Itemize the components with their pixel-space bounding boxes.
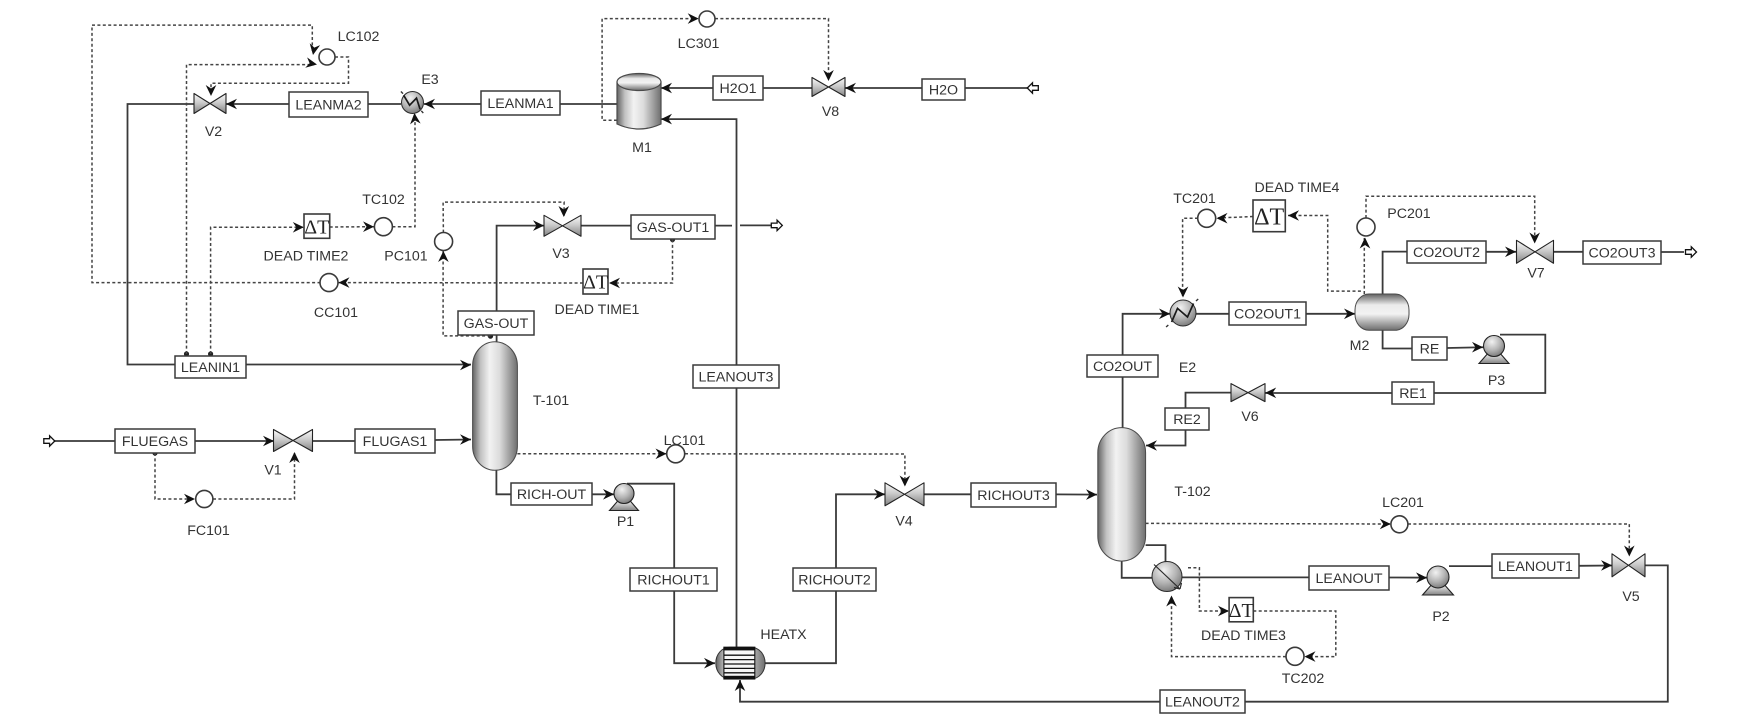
wire V3 to GAS-OUT1 [581, 225, 631, 227]
wire E3 to LEANMA2 [368, 103, 401, 105]
stream label LEANMA1 [481, 91, 560, 115]
svg-text:V8: V8 [822, 104, 839, 120]
wire RICHOUT3 to T-102 [1056, 493, 1097, 495]
wire CO2OUT3 out [1661, 251, 1684, 253]
svg-text:LC101: LC101 [664, 433, 706, 449]
product terminator CO2OUT3 [1686, 247, 1697, 257]
signal M1 level to LC301 [602, 19, 697, 121]
dead-time block DEAD TIME1 [583, 269, 608, 294]
arrow into V4 [874, 489, 885, 500]
wire H2O feed [965, 87, 1028, 89]
svg-text:P1: P1 [617, 514, 634, 530]
controller TC202 [1286, 647, 1304, 665]
arrow into V8 (signal) [823, 70, 834, 81]
svg-text:FLUGAS1: FLUGAS1 [363, 434, 428, 450]
svg-text:RICHOUT2: RICHOUT2 [798, 573, 871, 589]
arrow into M1 (H2O1) [661, 83, 672, 94]
svg-text:V1: V1 [264, 463, 281, 479]
stream label LEANOUT [1309, 566, 1389, 590]
signal CC101 to LC102 [92, 25, 321, 283]
svg-text:LC201: LC201 [1382, 495, 1424, 511]
heat exchanger E2 [1170, 300, 1196, 326]
controller PC201 [1357, 218, 1375, 236]
svg-text:TC202: TC202 [1282, 671, 1325, 687]
arrow into TC201 [1217, 213, 1228, 224]
mixer tank M1 [617, 74, 661, 130]
svg-text:RICHOUT3: RICHOUT3 [977, 488, 1050, 504]
arrow into TC202 [1305, 651, 1316, 662]
stream label H2O [922, 79, 965, 100]
arrow into V8 [845, 83, 856, 94]
stream label RE2 [1165, 408, 1209, 430]
signal PC101 to V3 [443, 202, 564, 233]
arrow into T-102 (RE2) [1146, 440, 1157, 451]
arrow into PC101 [438, 251, 449, 262]
svg-text:RICHOUT1: RICHOUT1 [637, 573, 710, 589]
signal LC101 to V4 [685, 454, 905, 485]
svg-text:H2O: H2O [929, 83, 958, 99]
junction tap on LEANIN1 (to LC102) [184, 351, 189, 356]
svg-text:V4: V4 [895, 514, 912, 530]
signal M2 temp to DEAD TIME4 [1288, 216, 1361, 292]
valve V1 [274, 430, 313, 452]
controller LC301 [699, 11, 715, 27]
wire T-102 vapor return to reboiler [1146, 545, 1166, 562]
arrow into V7 [1505, 247, 1516, 258]
signal M2 pressure to PC201 [1363, 238, 1365, 294]
arrow into reboiler (duty) [1166, 596, 1177, 607]
svg-text:DEAD TIME4: DEAD TIME4 [1255, 180, 1340, 196]
arrow into E2 [1159, 309, 1170, 320]
valve V7 [1517, 240, 1554, 263]
stream label CO2OUT2 [1407, 241, 1486, 263]
svg-text:DEAD TIME3: DEAD TIME3 [1201, 628, 1286, 644]
wire FLUEGAS feed [54, 440, 115, 442]
stream label RICHOUT3 [971, 483, 1056, 507]
arrow into V3 [533, 220, 544, 231]
stream label LEANOUT1 [1492, 554, 1579, 578]
svg-text:E2: E2 [1179, 360, 1196, 376]
svg-text:CO2OUT2: CO2OUT2 [1413, 245, 1480, 261]
arrow into E3 (duty) [409, 113, 421, 125]
svg-text:TC201: TC201 [1173, 191, 1216, 207]
arrow into V1 [263, 436, 274, 447]
wire HEATX to V4 via RICHOUT2 [765, 494, 885, 663]
signal LEANIN1 to LC102 [187, 65, 315, 354]
stream label FLUGAS1 [355, 429, 435, 453]
arrow into HEATX cold side [704, 658, 715, 669]
wire GAS-OUT1 out (left of crossing) [715, 225, 732, 227]
dead-time block DEAD TIME2 [304, 214, 330, 238]
valve V8 [812, 78, 845, 97]
signal GAS-OUT1 to DEAD TIME1 [609, 240, 673, 284]
signal T-102 level to LC201 [1146, 522, 1390, 525]
controller TC201 [1198, 209, 1216, 227]
arrow into V4 (signal) [900, 476, 911, 487]
svg-text:FLUEGAS: FLUEGAS [122, 434, 188, 450]
wire CO2OUT2 to V7 [1486, 251, 1516, 253]
svg-text:TC102: TC102 [362, 192, 405, 208]
wire RE to P3 [1447, 347, 1494, 348]
stream label GAS-OUT1 [631, 215, 715, 239]
controller FC101 [196, 490, 213, 507]
controller LC102 [319, 49, 335, 65]
stripper column T-102 [1098, 428, 1146, 561]
pump P3 [1479, 352, 1509, 364]
wire V4 to RICHOUT3 [924, 493, 971, 495]
arrow into LC102 (from CC101) [308, 43, 320, 56]
wire P1 to HEATX via RICHOUT1 [627, 484, 715, 664]
stream label CO2OUT3 [1583, 241, 1661, 264]
junction tap on FLUEGAS [152, 450, 157, 455]
heat exchanger HEATX [716, 647, 765, 679]
stream label CO2OUT [1087, 355, 1158, 377]
wire CO2OUT1 to M2 [1306, 313, 1355, 315]
svg-text:RE1: RE1 [1399, 386, 1427, 402]
svg-text:CO2OUT: CO2OUT [1093, 359, 1152, 375]
valve V2 [194, 94, 226, 114]
arrow into DEAD TIME4 [1288, 210, 1299, 221]
wire V7 to CO2OUT3 [1554, 251, 1583, 253]
junction tap on GAS-OUT1 [670, 237, 675, 242]
signal DEAD TIME1 to CC101 [339, 282, 584, 284]
svg-text:LEANMA2: LEANMA2 [295, 98, 361, 114]
svg-text:ΔT: ΔT [304, 216, 329, 238]
svg-text:ΔT: ΔT [1254, 204, 1284, 230]
pump P2 [1423, 583, 1454, 595]
wire T-101 bottom to RICH-OUT [496, 469, 511, 494]
arrow into P3 [1472, 342, 1483, 353]
arrow into LC102 (measurement) [305, 57, 318, 69]
stream label RICHOUT1 [630, 568, 717, 591]
wire LEANMA2 to V2 [226, 103, 289, 105]
svg-text:PC101: PC101 [384, 249, 427, 265]
stream label CO2OUT1 [1229, 302, 1306, 325]
wire T-102 bottom to reboiler [1122, 560, 1153, 578]
svg-text:V5: V5 [1622, 589, 1639, 605]
product terminator GAS-OUT1 [771, 220, 782, 230]
wire V5 to HEATX hot side via LEANOUT2 [740, 565, 1668, 701]
arrow into TC102 [363, 221, 374, 232]
arrow into V5 [1601, 560, 1612, 571]
svg-text:LEANMA1: LEANMA1 [487, 96, 553, 112]
heat exchanger E3 [402, 92, 424, 114]
arrow into DEAD TIME3 [1218, 606, 1229, 617]
junction tap on GAS-OUT [488, 334, 493, 339]
arrow into DEAD TIME1 [609, 278, 620, 289]
stream label RE1 [1392, 382, 1434, 404]
svg-text:GAS-OUT: GAS-OUT [464, 316, 529, 332]
stream label RICH-OUT [511, 483, 592, 505]
feed terminator H2O [1027, 83, 1038, 93]
wire LEANIN1 to T-101 [246, 364, 471, 366]
wire FLUEGAS to V1 [195, 440, 274, 442]
wire LEANOUT1 to V5 [1579, 565, 1612, 567]
wire V1 to FLUGAS1 [312, 440, 355, 442]
svg-text:DEAD TIME2: DEAD TIME2 [264, 249, 349, 265]
controller TC102 [374, 218, 392, 236]
svg-text:V2: V2 [205, 124, 222, 140]
svg-text:GAS-OUT1: GAS-OUT1 [637, 220, 710, 236]
arrow into LC201 [1380, 519, 1391, 530]
valve V5 [1612, 554, 1645, 577]
arrow into P2 [1416, 572, 1427, 583]
svg-text:M2: M2 [1350, 338, 1370, 354]
svg-text:LC301: LC301 [678, 36, 720, 52]
signal FLUEGAS to FC101 [155, 453, 195, 499]
svg-text:V3: V3 [552, 246, 569, 262]
junction tap on LEANIN1 (to DEAD TIME2) [208, 351, 213, 356]
wire M1 to LEANMA1 [560, 103, 617, 105]
feed terminator FLUEGAS [44, 436, 55, 446]
svg-text:T-101: T-101 [533, 393, 569, 409]
svg-text:V7: V7 [1527, 266, 1544, 282]
arrow into LC101 [656, 449, 667, 460]
signal TC202 to reboiler duty [1172, 597, 1287, 657]
arrow into M2 [1344, 309, 1355, 320]
svg-text:RE2: RE2 [1173, 412, 1201, 428]
signal GAS-OUT to PC101 [443, 251, 490, 336]
signal FC101 to V1 [213, 452, 295, 499]
svg-text:HEATX: HEATX [760, 627, 807, 643]
arrow into M1 (LEANOUT3) [661, 114, 672, 125]
arrow into T-102 (RICHOUT3) [1086, 489, 1097, 500]
wire FLUGAS1 to T-101 [435, 439, 471, 442]
svg-text:H2O1: H2O1 [719, 81, 756, 97]
arrow into PC201 [1360, 238, 1371, 249]
svg-text:PC201: PC201 [1387, 206, 1430, 222]
reboiler exchanger of T-102 [1152, 562, 1182, 592]
svg-text:LEANOUT: LEANOUT [1315, 571, 1382, 587]
svg-text:LC102: LC102 [338, 29, 380, 45]
stream label FLUEGAS [115, 429, 195, 453]
arrow into E2 (duty) [1178, 287, 1189, 298]
arrow into FC101 [184, 494, 195, 505]
absorber column T-101 [473, 342, 518, 471]
svg-text:FC101: FC101 [187, 523, 230, 539]
dead-time block DEAD TIME4 [1253, 200, 1285, 232]
signal DEAD TIME4 to TC201 [1218, 217, 1253, 219]
valve V4 [885, 483, 924, 506]
arrow into V2 [226, 99, 237, 110]
arrow into V3 (signal) [559, 206, 570, 217]
arrow into P1 [603, 489, 614, 500]
signal LC301 to V8 [715, 19, 829, 79]
arrow into DEAD TIME2 [293, 222, 304, 233]
arrow into V2 (signal) [206, 85, 217, 96]
stream label H2O1 [713, 76, 763, 100]
signal reboiler temp to DEAD TIME3 [1188, 568, 1228, 611]
stream label LEANOUT3 [693, 365, 779, 388]
stream label LEANIN1 [175, 356, 246, 378]
svg-text:P2: P2 [1432, 609, 1449, 625]
svg-text:M1: M1 [632, 140, 652, 156]
svg-text:RICH-OUT: RICH-OUT [517, 487, 587, 503]
svg-text:E3: E3 [421, 72, 438, 88]
arrow into V7 (signal) [1529, 233, 1540, 244]
signal LC102 to V2 [211, 57, 349, 92]
controller LC101 [667, 445, 685, 463]
svg-text:ΔT: ΔT [583, 272, 608, 294]
wire V6 to T-102 via RE2 [1146, 393, 1231, 446]
wire V8 to H2O1 [763, 87, 812, 89]
controller CC101 [320, 274, 338, 292]
arrow into V1 (signal) [289, 452, 300, 463]
wire V2 to LEANIN1 [128, 104, 195, 365]
wire LEANMA1 to E3 [424, 103, 481, 105]
valve V6 [1231, 384, 1265, 402]
wire H2O to V8 [845, 87, 922, 89]
wire LEANOUT to P2 [1389, 577, 1438, 579]
wire M2 bottom to RE [1383, 329, 1412, 349]
svg-text:ΔT: ΔT [1229, 600, 1254, 622]
wire T-102 top CO2OUT to E2 [1123, 314, 1170, 428]
signal PC201 to V7 [1366, 196, 1535, 242]
signal DEAD TIME2 to TC102 [330, 226, 374, 228]
wire T-101 top GAS-OUT to V3 [497, 226, 544, 342]
controller PC101 [435, 233, 453, 251]
wire H2O1 to M1 [661, 87, 713, 89]
signal TC102 to E3 [392, 114, 415, 227]
svg-text:V6: V6 [1241, 409, 1258, 425]
arrow into V6 [1265, 388, 1276, 399]
svg-text:RE: RE [1420, 342, 1440, 358]
wire P3 to V6 via RE1 [1265, 335, 1545, 393]
wire GAS-OUT1 out (right of crossing) [740, 224, 772, 226]
arrow into T-101 (FLUGAS1) [460, 434, 471, 445]
signal T-101 level to LC101 [517, 453, 666, 455]
svg-text:LEANOUT1: LEANOUT1 [1498, 559, 1573, 575]
flash drum M2 [1355, 294, 1409, 330]
pump P1 [610, 499, 639, 511]
dead-time block DEAD TIME3 [1229, 598, 1253, 622]
svg-text:LEANOUT3: LEANOUT3 [699, 370, 774, 386]
svg-text:T-102: T-102 [1174, 484, 1210, 500]
wire RICH-OUT to P1 [592, 493, 624, 495]
stream label RICHOUT2 [793, 568, 876, 591]
wire P2 to LEANOUT1 [1449, 565, 1493, 567]
arrow into HEATX hot side [735, 680, 746, 691]
arrow into E3 [424, 99, 435, 110]
stream label RE [1412, 337, 1447, 360]
signal LC201 to V5 [1408, 524, 1629, 555]
arrow into LC301 [688, 13, 699, 24]
stream label GAS-OUT [458, 311, 534, 335]
svg-text:CO2OUT1: CO2OUT1 [1234, 307, 1301, 323]
wire HEATX to M1 (LEANOUT3) [661, 119, 737, 647]
arrow into V5 (signal) [1624, 546, 1635, 557]
svg-text:LEANOUT2: LEANOUT2 [1165, 695, 1240, 711]
wire M2 top to CO2OUT2 [1383, 252, 1407, 295]
svg-text:CO2OUT3: CO2OUT3 [1588, 246, 1655, 262]
svg-text:P3: P3 [1488, 373, 1505, 389]
arrow into CC101 [339, 277, 350, 288]
wire E2 to CO2OUT1 [1196, 313, 1229, 315]
valve V3 [544, 215, 581, 236]
arrow into T-101 (LEANIN1) [460, 360, 471, 371]
wire reboiler to LEANOUT [1182, 576, 1310, 578]
stream label LEANOUT2 [1160, 690, 1245, 713]
svg-text:DEAD TIME1: DEAD TIME1 [555, 302, 640, 318]
controller LC201 [1391, 516, 1408, 533]
signal DEAD TIME3 to TC202 [1253, 611, 1336, 657]
signal TC201 to E2 [1183, 218, 1198, 296]
svg-text:CC101: CC101 [314, 305, 358, 321]
svg-text:LEANIN1: LEANIN1 [181, 360, 240, 376]
signal LEANIN1 to DEAD TIME2 [211, 227, 303, 354]
stream label LEANMA2 [289, 92, 368, 117]
